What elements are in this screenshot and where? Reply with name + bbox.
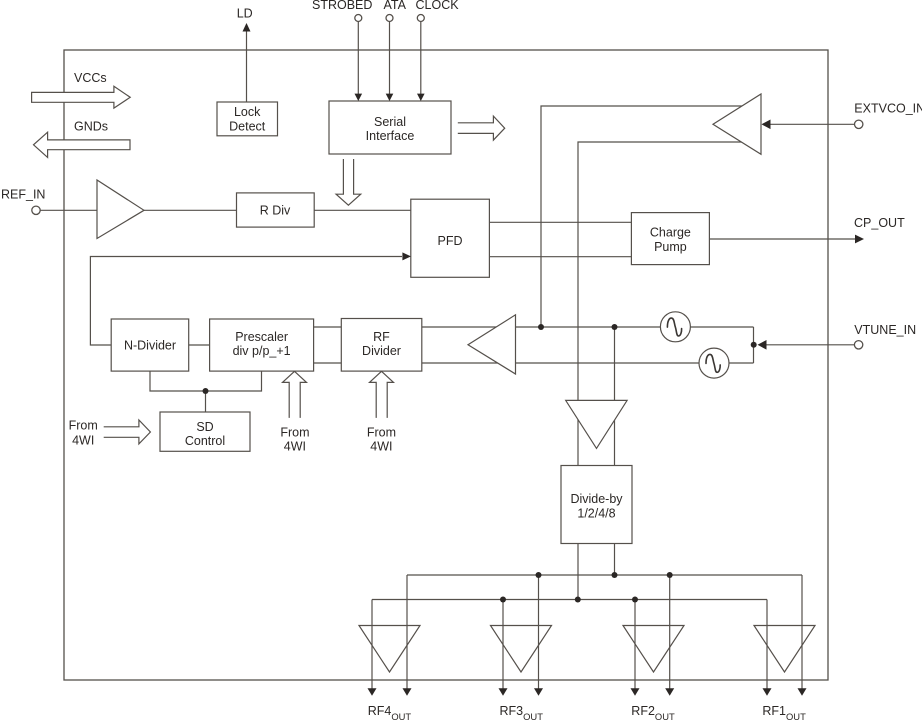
- svg-text:1/2/4/8: 1/2/4/8: [577, 507, 615, 521]
- svg-text:Pump: Pump: [654, 240, 687, 254]
- svg-text:Lock: Lock: [234, 105, 261, 119]
- svg-text:Control: Control: [185, 434, 225, 448]
- svg-text:STROBED: STROBED: [312, 0, 372, 12]
- svg-text:RF2OUT: RF2OUT: [631, 704, 675, 720]
- svg-text:4WI: 4WI: [284, 440, 306, 454]
- svg-text:R Div: R Div: [260, 203, 291, 217]
- svg-text:Prescaler: Prescaler: [235, 330, 288, 344]
- svg-text:VTUNE_IN: VTUNE_IN: [854, 323, 916, 337]
- svg-text:4WI: 4WI: [72, 434, 94, 448]
- svg-text:VCCs: VCCs: [74, 71, 107, 85]
- svg-text:RF3OUT: RF3OUT: [500, 704, 544, 720]
- svg-text:From: From: [69, 419, 98, 433]
- svg-text:SD: SD: [196, 420, 213, 434]
- svg-text:GNDs: GNDs: [74, 119, 108, 133]
- svg-text:4WI: 4WI: [370, 440, 392, 454]
- svg-text:PFD: PFD: [438, 234, 463, 248]
- svg-text:EXTVCO_IN: EXTVCO_IN: [854, 102, 922, 116]
- svg-text:ATA: ATA: [384, 0, 407, 12]
- svg-text:div p/p_+1: div p/p_+1: [233, 344, 291, 358]
- svg-text:Detect: Detect: [229, 119, 266, 133]
- svg-text:RF4OUT: RF4OUT: [368, 704, 412, 720]
- svg-text:Serial: Serial: [374, 115, 406, 129]
- svg-text:RF1OUT: RF1OUT: [762, 704, 806, 720]
- svg-text:Interface: Interface: [366, 129, 415, 143]
- svg-text:RF: RF: [373, 330, 390, 344]
- svg-text:From: From: [280, 425, 309, 439]
- svg-text:CP_OUT: CP_OUT: [854, 216, 905, 230]
- svg-text:From: From: [367, 425, 396, 439]
- svg-text:N-Divider: N-Divider: [124, 338, 176, 352]
- svg-text:Divider: Divider: [362, 344, 401, 358]
- svg-text:REF_IN: REF_IN: [1, 188, 45, 202]
- svg-text:Charge: Charge: [650, 226, 691, 240]
- svg-text:LD: LD: [237, 7, 253, 21]
- svg-text:CLOCK: CLOCK: [416, 0, 460, 12]
- svg-text:Divide-by: Divide-by: [570, 492, 623, 506]
